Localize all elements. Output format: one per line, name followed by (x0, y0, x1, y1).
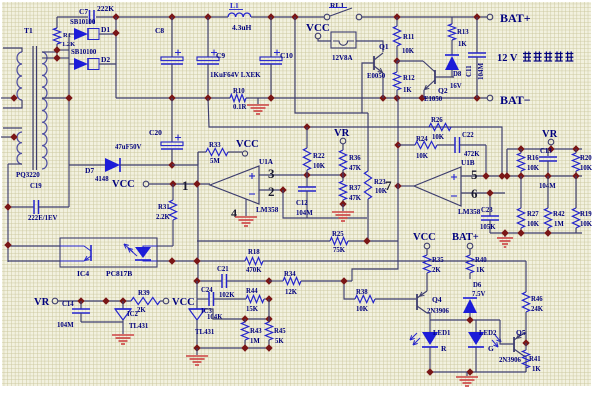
svg-text:C21: C21 (217, 266, 229, 273)
svg-text:LM358: LM358 (256, 206, 279, 214)
svg-text:BAT+: BAT+ (500, 11, 531, 25)
capacitor C10 (270, 17, 272, 57)
svg-text:LED2: LED2 (479, 330, 497, 337)
wire long vertical x398 (397, 98, 399, 145)
resistor R33 5M (198, 151, 206, 153)
svg-text:2.2K: 2.2K (156, 214, 170, 221)
svg-text:104M: 104M (296, 210, 313, 217)
svg-text:G: G (488, 344, 494, 353)
svg-text:R19: R19 (580, 211, 592, 218)
resistor R46 24K (522, 292, 529, 312)
svg-text:4148: 4148 (95, 176, 109, 183)
resistor R45 5K (268, 299, 270, 319)
capacitor C13 104M (547, 149, 549, 156)
svg-text:C22: C22 (462, 132, 474, 139)
svg-text:C19: C19 (30, 183, 42, 190)
svg-text:LED1: LED1 (433, 330, 451, 337)
resistor R42 1M (547, 176, 549, 208)
resistor R10 (230, 94, 246, 101)
svg-text:R: R (441, 344, 447, 353)
svg-text:VCC: VCC (172, 297, 195, 308)
wire secondary taps (42, 51, 57, 53)
svg-text:R27: R27 (527, 211, 539, 218)
wire R46 column (525, 261, 527, 292)
capacitor C19 222E/1EV (8, 206, 34, 208)
svg-text:2: 2 (268, 184, 275, 199)
svg-text:1M: 1M (554, 221, 564, 228)
wire pin6 (461, 192, 505, 194)
inductor L1 (228, 13, 251, 17)
svg-text:7: 7 (385, 178, 392, 193)
svg-text:12V8A: 12V8A (332, 54, 353, 62)
wire top rail to BAT+ (57, 16, 88, 18)
junction dots BAT- rail (168, 94, 175, 101)
wire pin2 (259, 189, 283, 191)
svg-text:R16: R16 (527, 155, 539, 162)
wire right bank top rail (507, 148, 582, 150)
wire pin1 output (149, 183, 210, 185)
capacitor C12 104M (306, 175, 308, 187)
shunt reg IC3 TL431 (196, 281, 198, 309)
resistor R13 (448, 24, 455, 40)
svg-text:2K: 2K (432, 267, 441, 274)
svg-text:R13: R13 (457, 29, 469, 36)
resistor R12 (396, 61, 398, 72)
svg-text:VCC: VCC (112, 179, 135, 190)
wire feedback jog (352, 241, 398, 281)
node VCC left (163, 298, 169, 304)
ground VR row (122, 322, 124, 334)
svg-text:104M: 104M (477, 63, 485, 81)
wire LED row (427, 313, 430, 320)
svg-text:PQ3220: PQ3220 (16, 171, 40, 179)
svg-text:PC817B: PC817B (106, 269, 132, 278)
capacitor C11 (476, 17, 478, 53)
svg-text:D6: D6 (473, 282, 482, 289)
wire R26 feedback row (208, 98, 502, 176)
svg-text:C23: C23 (481, 207, 493, 214)
svg-text:2K: 2K (137, 307, 146, 314)
svg-text:TL431: TL431 (195, 329, 215, 336)
svg-text:104M: 104M (57, 322, 74, 329)
svg-text:R41: R41 (529, 356, 541, 363)
svg-text:470K: 470K (246, 267, 262, 274)
wire bottom bank rail (490, 232, 582, 234)
svg-text:R1: R1 (63, 32, 71, 39)
svg-text:10K: 10K (402, 48, 415, 55)
svg-text:10K: 10K (527, 221, 540, 228)
svg-text:E1050: E1050 (424, 96, 443, 103)
node primary stubs (1, 97, 14, 99)
svg-text:10K: 10K (356, 306, 369, 313)
resistor R1 snubber (56, 17, 58, 28)
svg-text:U1B: U1B (461, 159, 475, 167)
svg-text:75K: 75K (333, 247, 346, 254)
wire output column x198 (197, 152, 199, 281)
svg-text:R43: R43 (250, 328, 262, 335)
svg-text:15K: 15K (246, 306, 259, 313)
svg-text:C11: C11 (465, 65, 473, 77)
wire pin3 (259, 174, 343, 176)
node Q1 base (393, 57, 400, 64)
wire anode column (57, 49, 69, 51)
ground IC3 (196, 348, 198, 355)
svg-text:D1: D1 (101, 25, 110, 34)
svg-text:SB10100: SB10100 (70, 19, 96, 26)
svg-text:1: 1 (182, 178, 189, 193)
svg-text:472K: 472K (464, 151, 480, 158)
svg-text:R25: R25 (332, 231, 344, 238)
LED1 red (429, 320, 431, 332)
wire R23 column (367, 113, 369, 171)
resistor R43 1M (244, 319, 246, 322)
svg-text:C10: C10 (280, 51, 293, 60)
wire R38 row (344, 281, 355, 299)
svg-text:5M: 5M (210, 158, 220, 165)
wire C14 TL431 bottom (81, 321, 123, 323)
svg-text:4.3uH: 4.3uH (232, 23, 252, 32)
svg-text:2N3906: 2N3906 (499, 357, 522, 364)
wire C20 node to R33 node (172, 164, 198, 166)
svg-text:R38: R38 (356, 289, 368, 296)
wire opto left leads (8, 245, 60, 247)
svg-text:Q5: Q5 (516, 328, 526, 337)
resistor R39 2K (131, 297, 160, 304)
svg-text:VCC: VCC (413, 232, 436, 243)
svg-text:1K: 1K (403, 87, 412, 94)
ground under C10 (257, 98, 259, 104)
transistor Q4 2N3906 (416, 294, 418, 310)
svg-text:R31: R31 (158, 204, 170, 211)
node BAT- (487, 95, 493, 101)
diode D7 4148 (69, 164, 105, 166)
svg-text:LM358: LM358 (458, 208, 481, 216)
shunt reg IC2 TL431 (122, 301, 124, 309)
capacitor C8 (171, 17, 173, 57)
optocoupler IC4 PC817B (60, 238, 157, 267)
svg-text:16V: 16V (450, 83, 462, 90)
resistor R16 (520, 149, 522, 153)
svg-text:1M: 1M (250, 338, 260, 345)
svg-text:R35: R35 (432, 257, 444, 264)
resistor R19 (575, 176, 577, 208)
ground LED rail (466, 372, 468, 376)
svg-text:R11: R11 (403, 34, 415, 41)
wire left column (7, 164, 9, 262)
svg-text:Q1: Q1 (379, 42, 389, 51)
svg-text:5: 5 (471, 167, 478, 182)
capacitor C7 (89, 10, 91, 24)
svg-text:R34: R34 (284, 271, 296, 278)
svg-text:IC4: IC4 (77, 269, 89, 278)
resistor R36 (339, 150, 346, 170)
capacitor C14 104M (80, 301, 82, 309)
svg-text:SB10100: SB10100 (71, 49, 97, 56)
op-amp U1A LM358 (210, 166, 259, 204)
svg-text:E0050: E0050 (367, 73, 386, 80)
capacitor C22 472K (454, 137, 456, 153)
svg-text:10K: 10K (432, 134, 445, 141)
ground R37 (342, 204, 344, 211)
wire relay to Q1 collector (356, 41, 383, 52)
svg-text:R37: R37 (349, 185, 361, 192)
wire LED bottom rail (430, 371, 526, 373)
svg-text:C24: C24 (201, 287, 213, 294)
svg-text:R22: R22 (313, 153, 325, 160)
resistor R31 2.2K (172, 184, 174, 200)
svg-text:Q2: Q2 (438, 86, 448, 95)
resistor R26 (429, 123, 451, 130)
svg-text:6: 6 (471, 186, 478, 201)
wire IC3 bottom (197, 347, 269, 349)
svg-text:RL1: RL1 (330, 1, 344, 10)
resistor R22 (306, 127, 308, 148)
svg-text:10K: 10K (313, 163, 326, 170)
svg-text:3: 3 (268, 166, 275, 181)
svg-text:VR: VR (34, 297, 50, 308)
svg-text:C20: C20 (149, 128, 162, 137)
svg-text:D8: D8 (453, 71, 462, 78)
svg-text:5K: 5K (275, 338, 284, 345)
resistor R20 (575, 149, 577, 153)
capacitor C9 (207, 17, 209, 57)
svg-text:R10: R10 (233, 88, 245, 95)
node BAT+ (487, 14, 493, 20)
wire snubber line from top rail (295, 17, 368, 113)
svg-text:R20: R20 (580, 155, 592, 162)
resistor R27 (520, 176, 522, 208)
svg-text:U1A: U1A (259, 158, 274, 166)
wire ref row (205, 309, 269, 319)
svg-text:Q4: Q4 (432, 295, 442, 304)
svg-text:10K: 10K (527, 165, 540, 172)
resistor R37 (342, 175, 344, 181)
wire R25 row (197, 240, 330, 242)
svg-text:C7: C7 (79, 7, 88, 16)
svg-text:R46: R46 (531, 296, 543, 303)
svg-text:R39: R39 (138, 290, 150, 297)
svg-text:C12: C12 (296, 200, 308, 207)
svg-text:R18: R18 (248, 249, 260, 256)
svg-text:VR: VR (334, 128, 350, 139)
svg-text:R12: R12 (403, 75, 415, 82)
svg-text:10K: 10K (416, 153, 429, 160)
resistor R35 2K (426, 249, 428, 255)
svg-text:D2: D2 (101, 55, 110, 64)
svg-text:R24: R24 (416, 136, 428, 143)
svg-text:BAT−: BAT− (500, 93, 531, 107)
svg-text:R26: R26 (431, 117, 443, 124)
svg-text:102K: 102K (219, 292, 235, 299)
svg-text:10K: 10K (580, 221, 593, 228)
svg-text:L1: L1 (230, 1, 239, 10)
svg-text:T1: T1 (24, 26, 33, 35)
svg-text:D7: D7 (85, 166, 94, 175)
svg-text:R45: R45 (274, 328, 286, 335)
capacitor C20 47uF50V (171, 98, 173, 142)
svg-text:222K: 222K (97, 4, 114, 13)
svg-text:VR: VR (542, 129, 558, 140)
resistor R34 12K (269, 280, 283, 282)
capacitor C24 102K (208, 292, 210, 306)
wire C21 row (197, 280, 222, 282)
svg-text:47uF50V: 47uF50V (115, 144, 142, 151)
resistor R18 470K (245, 257, 263, 264)
svg-text:VCC: VCC (306, 22, 330, 34)
wire C24 row (197, 298, 209, 300)
svg-text:104K: 104K (207, 314, 223, 321)
wire pin5 (461, 175, 582, 177)
wire opto out to R18 rail (157, 260, 197, 262)
LED2 green (475, 320, 477, 332)
svg-text:4: 4 (231, 206, 237, 220)
wire opto to R31 (157, 245, 173, 247)
svg-text:47K: 47K (349, 165, 362, 172)
svg-text:12K: 12K (285, 289, 298, 296)
resistor R41 1K (525, 343, 527, 350)
svg-text:0.1R: 0.1R (233, 104, 246, 111)
svg-text:C8: C8 (155, 26, 164, 35)
svg-text:C13: C13 (540, 148, 552, 155)
svg-text:12 V: 12 V (497, 53, 518, 64)
svg-text:C14: C14 (62, 301, 74, 308)
svg-text:R44: R44 (246, 288, 258, 295)
zener D8 symbol (445, 54, 459, 56)
svg-text:R33: R33 (209, 142, 221, 149)
svg-text:7.5V: 7.5V (472, 291, 485, 298)
svg-text:222E/1EV: 222E/1EV (28, 215, 58, 222)
svg-text:R42: R42 (553, 211, 565, 218)
resistor R44 15K (246, 295, 264, 302)
svg-text:C9: C9 (216, 51, 225, 60)
svg-text:10K: 10K (580, 165, 593, 172)
resistor R24 10K (398, 144, 415, 146)
svg-text:TL431: TL431 (129, 323, 149, 330)
resistor R23 (364, 171, 371, 199)
wire R18 rail (197, 260, 245, 262)
wire BAT- rail (116, 97, 230, 99)
transistor Q1 E0050 (373, 56, 375, 70)
junction dots top rail (112, 13, 119, 20)
svg-text:R40: R40 (475, 257, 487, 264)
svg-text:R36: R36 (349, 155, 361, 162)
svg-text:1K: 1K (458, 41, 467, 48)
wire rectifier cathodes (99, 33, 116, 35)
ground small right (504, 193, 506, 233)
resistor R38 10K (355, 295, 375, 302)
pin 4 ground U1A (245, 199, 247, 216)
resistor R25 75K (330, 237, 348, 244)
svg-text:1KuF64V LXEK: 1KuF64V LXEK (210, 71, 261, 79)
svg-text:47K: 47K (349, 195, 362, 202)
wire VR row (58, 300, 131, 302)
resistor R11 (396, 17, 398, 26)
wire primary leads (3, 48, 22, 52)
capacitor C21 (221, 274, 223, 288)
transistor Q5 2N3906 (500, 320, 514, 344)
capacitor C23 105K (489, 193, 491, 216)
svg-text:1K: 1K (532, 366, 541, 373)
svg-text:VCC: VCC (236, 139, 259, 150)
svg-text:BAT+: BAT+ (452, 232, 479, 243)
zener D8 16V (451, 17, 453, 24)
svg-text:24K: 24K (531, 306, 544, 313)
node secondary taps (53, 46, 60, 53)
resistor R40 1K (469, 249, 471, 255)
transistor Q2 E1050 (397, 60, 423, 62)
svg-text:1K: 1K (476, 267, 485, 274)
op-amp U1B LM358 (414, 167, 461, 206)
relay coil 12V8A (318, 39, 331, 41)
svg-text:105K: 105K (480, 224, 496, 231)
wire pin7 output (398, 185, 414, 187)
